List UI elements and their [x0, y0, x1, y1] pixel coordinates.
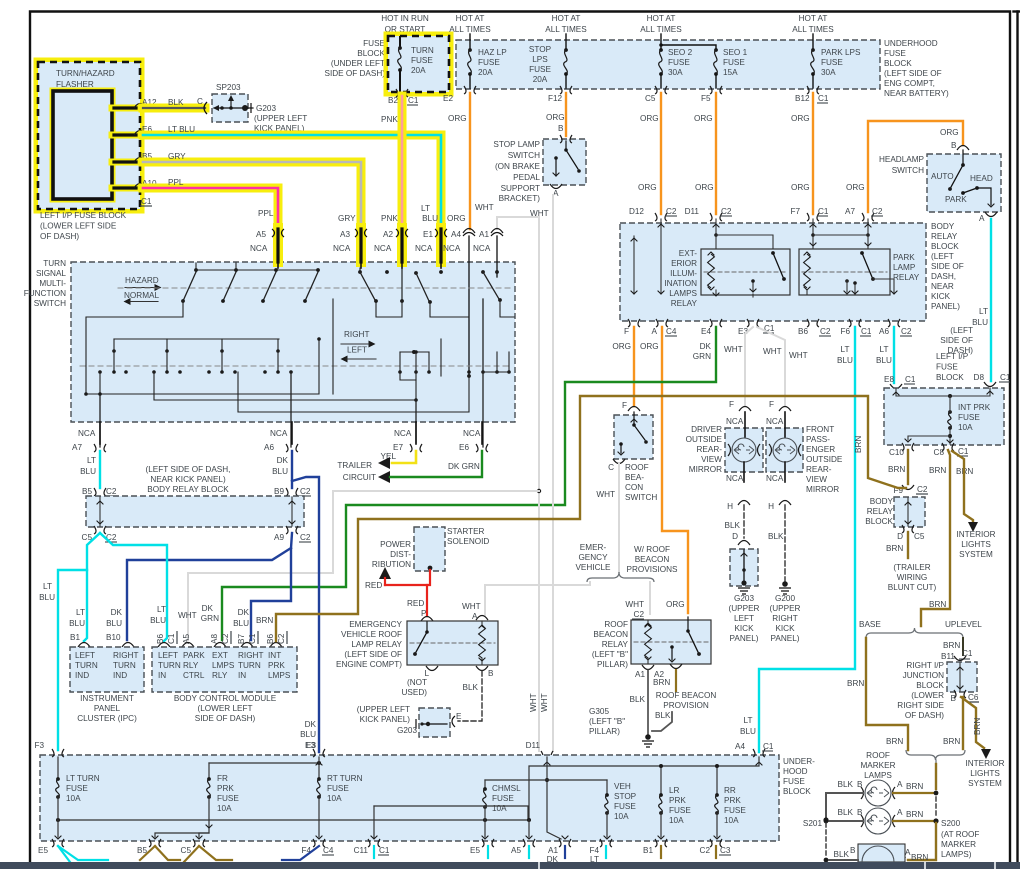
rt turn output: [316, 797, 323, 839]
svg-text:F: F: [769, 400, 774, 409]
svg-text:BEA-: BEA-: [625, 473, 644, 482]
terminal A1: [491, 229, 503, 237]
svg-text:PROVISION: PROVISION: [663, 701, 709, 710]
terminal C11 C1 out: [354, 839, 390, 855]
emerg relay coil: [479, 621, 486, 664]
svg-text:(UPPER: (UPPER: [729, 604, 760, 613]
wire LT BLU E5 out2: [487, 846, 489, 858]
ipc terminal labels: [70, 633, 121, 642]
underhood fuse block box: [456, 40, 880, 89]
svg-text:FUSE: FUSE: [217, 794, 239, 803]
terminal A3 highlighted: [355, 228, 367, 262]
svg-text:WIRING: WIRING: [897, 573, 927, 582]
switch contact mid: [414, 271, 469, 317]
svg-text:LT: LT: [841, 345, 850, 354]
svg-text:E5: E5: [470, 846, 480, 855]
svg-text:SWITCH: SWITCH: [508, 151, 540, 160]
svg-text:E2: E2: [443, 94, 453, 103]
svg-text:HOT AT: HOT AT: [799, 14, 828, 23]
adjacent page edge: [1014, 12, 1020, 869]
svg-text:B: B: [857, 780, 863, 789]
svg-text:INT: INT: [268, 651, 281, 660]
svg-text:BRN: BRN: [929, 466, 946, 475]
terminal E G203: [452, 716, 455, 727]
headlamp switch contacts: [948, 150, 994, 207]
switch A2 drop: [374, 268, 404, 317]
svg-text:DASH,: DASH,: [931, 272, 956, 281]
svg-text:A5: A5: [256, 230, 266, 239]
svg-text:C2: C2: [666, 207, 677, 216]
svg-text:KICK: KICK: [734, 624, 754, 633]
relay2 bottom exits: [807, 281, 897, 294]
svg-text:SP203: SP203: [216, 83, 241, 92]
svg-text:PEDAL: PEDAL: [513, 173, 540, 182]
svg-text:NCA: NCA: [473, 244, 491, 253]
svg-text:ALL TIMES: ALL TIMES: [640, 25, 682, 34]
switch net a: [84, 301, 183, 396]
svg-text:PARK LPS: PARK LPS: [821, 48, 861, 57]
wire WHT roof beacon C to brace: [596, 464, 619, 572]
svg-text:LAMPS: LAMPS: [669, 289, 697, 298]
svg-text:SWITCH: SWITCH: [625, 493, 657, 502]
svg-text:NCA: NCA: [443, 244, 461, 253]
svg-text:ERIOR: ERIOR: [671, 259, 697, 268]
splice S201 dot: [803, 817, 829, 828]
svg-text:(LEFT "B": (LEFT "B": [592, 650, 628, 659]
svg-text:A: A: [905, 848, 911, 857]
bus y806: [371, 806, 528, 839]
svg-text:FLASHER: FLASHER: [56, 80, 94, 89]
node dashed link: [935, 797, 937, 816]
switch mid verticals: [114, 339, 278, 372]
svg-text:RT TURN: RT TURN: [327, 774, 363, 783]
wire BLK S201 down: [824, 823, 829, 862]
svg-text:VEHICLE ROOF: VEHICLE ROOF: [341, 630, 402, 639]
svg-text:RELAY: RELAY: [671, 299, 698, 308]
a5 output: [526, 820, 533, 839]
terminal C roof beacon switch: [608, 459, 625, 472]
rr prk fuse 10A: [715, 766, 747, 825]
roof beacon relay coil: [645, 620, 652, 664]
svg-text:F: F: [622, 401, 627, 410]
svg-text:D12: D12: [629, 207, 644, 216]
roof beacon relay centerline: [634, 641, 708, 643]
terminal B11: [941, 652, 966, 661]
terminal A C4: [652, 319, 677, 336]
svg-text:SIDE OF DASH): SIDE OF DASH): [195, 714, 256, 723]
svg-text:(AT ROOF: (AT ROOF: [941, 830, 979, 839]
switch stub A1: [496, 236, 498, 277]
svg-text:NCA: NCA: [78, 429, 96, 438]
terminal P emerg relay: [421, 617, 433, 622]
interior lights system caption 1: [956, 530, 995, 559]
svg-text:C2: C2: [917, 485, 928, 494]
svg-text:SOLENOID: SOLENOID: [447, 537, 489, 546]
flasher label: [56, 69, 115, 89]
svg-text:REAR-: REAR-: [697, 445, 723, 454]
svg-text:C: C: [197, 97, 203, 106]
wire DK BLU A9 to IPC B10: [106, 548, 291, 640]
svg-text:FUSE: FUSE: [884, 49, 906, 58]
svg-text:BRN: BRN: [911, 853, 928, 862]
switch stub highlighted: [440, 262, 442, 268]
svg-text:LEFT: LEFT: [734, 614, 754, 623]
svg-text:POWER: POWER: [380, 540, 411, 549]
svg-text:FUSE: FUSE: [783, 777, 805, 786]
svg-text:NCA: NCA: [766, 417, 784, 426]
svg-text:BLU: BLU: [422, 214, 438, 223]
svg-text:A: A: [897, 808, 903, 817]
svg-text:WHT: WHT: [724, 345, 743, 354]
caption left side of dash: [940, 326, 973, 355]
svg-text:DRIVER: DRIVER: [691, 425, 722, 434]
svg-text:TURN: TURN: [113, 661, 136, 670]
svg-text:BLU: BLU: [272, 467, 288, 476]
svg-text:MIRROR: MIRROR: [689, 465, 722, 474]
ipc terminals: [78, 643, 134, 648]
svg-text:LR: LR: [669, 786, 680, 795]
switch stub highlighted: [277, 262, 279, 268]
seo2 fuse 30A: [659, 48, 693, 88]
wire WHT brace right to roof beacon relay: [625, 582, 650, 619]
svg-text:B: B: [857, 808, 863, 817]
interior lights arrow 2: [981, 749, 991, 759]
svg-text:LMPS: LMPS: [268, 671, 291, 680]
svg-text:LT TURN: LT TURN: [66, 774, 100, 783]
svg-text:ORG: ORG: [546, 113, 565, 122]
wire BRN C5 out: [184, 846, 232, 862]
svg-text:ROOF: ROOF: [604, 620, 628, 629]
marker lamp 2 wires: [824, 818, 939, 823]
ground G203 symbol: [738, 588, 750, 594]
roof beacon relay box: [631, 620, 711, 664]
svg-text:LT: LT: [421, 204, 430, 213]
switch contact A1: [481, 270, 514, 317]
bus a4 park lamps: [529, 757, 759, 820]
headlamp switch caption: [879, 155, 925, 175]
svg-text:A1: A1: [635, 670, 645, 679]
passenger mirror box: [766, 428, 803, 472]
svg-text:A: A: [897, 780, 903, 789]
svg-text:IN: IN: [238, 671, 246, 680]
svg-text:20A: 20A: [411, 66, 426, 75]
svg-text:10A: 10A: [217, 804, 232, 813]
svg-text:ORG: ORG: [640, 342, 659, 351]
svg-text:(LEFT: (LEFT: [950, 326, 973, 335]
svg-text:A: A: [652, 327, 658, 336]
svg-text:NEAR: NEAR: [931, 282, 954, 291]
terminal F5: [701, 86, 722, 103]
switch hazard blade: [303, 272, 318, 303]
svg-text:RIGHT: RIGHT: [772, 614, 797, 623]
svg-text:20A: 20A: [533, 75, 548, 84]
svg-text:(TRAILER: (TRAILER: [893, 563, 930, 572]
svg-text:RLY: RLY: [212, 671, 228, 680]
svg-text:PARK: PARK: [893, 253, 915, 262]
svg-text:LAMP: LAMP: [893, 263, 916, 272]
bcm terminals: [158, 643, 282, 648]
svg-text:C2: C2: [700, 846, 711, 855]
svg-text:E7: E7: [393, 443, 403, 452]
svg-text:ORG: ORG: [846, 183, 865, 192]
bus d11 branch: [485, 757, 607, 839]
svg-text:OF DASH): OF DASH): [40, 232, 79, 241]
svg-text:ENG COMPT,: ENG COMPT,: [884, 79, 935, 88]
terminal A5 highlighted: [272, 228, 284, 262]
wire BLK A12 to SP203: [143, 97, 205, 108]
svg-text:D: D: [897, 532, 903, 541]
hot at all times label #3: [640, 14, 682, 34]
body relay block caption: [931, 222, 964, 311]
svg-text:C1: C1: [763, 742, 774, 751]
wire YEL E7 trailer: [381, 451, 416, 463]
svg-text:(UPPER: (UPPER: [770, 604, 801, 613]
relay1 internal feed D11: [713, 219, 773, 248]
svg-text:OF DASH): OF DASH): [905, 711, 944, 720]
svg-text:A7: A7: [845, 207, 855, 216]
roof beacon relay switch: [669, 617, 701, 662]
svg-text:BRACKET): BRACKET): [499, 194, 541, 203]
bcm terminal labels rotated: [156, 631, 287, 644]
terminal F4 C4 out: [301, 839, 334, 855]
wire BRN B to interior lights 2: [961, 697, 984, 748]
wire LT BLU branch to F3: [34, 570, 87, 750]
svg-text:LEFT I/P: LEFT I/P: [936, 352, 969, 361]
terminal A5 out: [511, 839, 535, 855]
body relay block small caption: [865, 497, 893, 526]
switch hazard labels: [124, 276, 162, 305]
svg-text:NCA: NCA: [250, 244, 268, 253]
svg-text:WHT: WHT: [462, 602, 481, 611]
relay1 centerline: [704, 271, 787, 273]
terminal C2 C3 out: [700, 839, 731, 855]
roof marker brace: [906, 750, 965, 764]
svg-text:ORG: ORG: [791, 183, 810, 192]
left body relay caption: [146, 465, 231, 494]
wire DK BLU F4 out: [282, 846, 319, 860]
svg-text:FRONT: FRONT: [806, 425, 834, 434]
svg-text:FUNCTION: FUNCTION: [24, 289, 66, 298]
base uplevel brace: [859, 620, 982, 638]
flasher pin E6: [112, 131, 146, 136]
svg-text:ORG: ORG: [791, 114, 810, 123]
wire PNK fuse to A2: [381, 96, 402, 240]
relay2 coil: [804, 252, 811, 290]
terminal B12 C1: [795, 86, 829, 103]
svg-text:E4: E4: [701, 327, 711, 336]
svg-text:HAZARD: HAZARD: [125, 276, 159, 285]
svg-text:PARK: PARK: [183, 651, 205, 660]
svg-text:INT PRK: INT PRK: [958, 403, 991, 412]
svg-text:GENCY: GENCY: [578, 553, 608, 562]
svg-text:FUSE: FUSE: [66, 784, 88, 793]
wire BRN C8 to base uplevel brace: [921, 450, 950, 626]
svg-text:10A: 10A: [327, 794, 342, 803]
svg-text:CLUSTER (IPC): CLUSTER (IPC): [77, 714, 137, 723]
svg-text:15A: 15A: [723, 68, 738, 77]
terminal D11 entry2: [544, 762, 551, 765]
svg-text:SEO 1: SEO 1: [723, 48, 748, 57]
roof beacon brace: [587, 572, 654, 582]
svg-text:RELAY: RELAY: [931, 232, 958, 241]
svg-text:BLU: BLU: [740, 727, 756, 736]
veh stop output: [604, 813, 611, 839]
svg-text:BLOCK: BLOCK: [931, 242, 959, 251]
wire LT BLU A7 to B5: [80, 451, 100, 488]
relay2 centerline: [802, 271, 887, 273]
svg-text:A9: A9: [274, 533, 284, 542]
hot at all times label #4: [792, 14, 834, 34]
svg-text:ORG: ORG: [695, 183, 714, 192]
svg-text:C4: C4: [323, 846, 334, 855]
svg-text:C4: C4: [666, 327, 677, 336]
relay1 coil: [708, 252, 715, 290]
wire DK GRN E6 trailer: [390, 451, 482, 477]
svg-text:BRN: BRN: [886, 544, 903, 553]
svg-text:BASE: BASE: [859, 620, 881, 629]
int prk fuse outputs: [905, 428, 954, 444]
svg-text:B1: B1: [70, 633, 80, 642]
headlamp A terminal: [979, 212, 997, 223]
svg-text:B10: B10: [106, 633, 121, 642]
terminal C8 C1: [934, 443, 969, 457]
wire BRN D trailer stub: [886, 532, 908, 558]
lt turn fuse 10A: [56, 757, 100, 803]
terminal A2 highlighted: [396, 228, 408, 262]
svg-text:(LEFT "B": (LEFT "B": [589, 717, 625, 726]
right ip junction caption: [897, 661, 944, 720]
emerg relay caption: [336, 620, 402, 669]
body relay block small box: [894, 497, 925, 527]
svg-text:DK: DK: [111, 608, 123, 617]
svg-text:C1: C1: [861, 327, 872, 336]
svg-text:FUSE: FUSE: [529, 65, 551, 74]
svg-text:BLOCK: BLOCK: [916, 681, 944, 690]
svg-text:LAMP RELAY: LAMP RELAY: [351, 640, 402, 649]
svg-text:ROOF: ROOF: [866, 751, 890, 760]
wire ORG F12 to stop lamp switch: [546, 93, 566, 136]
svg-text:PPL: PPL: [168, 178, 184, 187]
svg-text:A4: A4: [735, 742, 745, 751]
switch hazard blade: [221, 272, 236, 303]
bcm box: [152, 647, 297, 692]
svg-text:ORG: ORG: [612, 342, 631, 351]
ipc caption: [77, 694, 137, 723]
ground G203 internal: [741, 550, 748, 586]
svg-text:RED: RED: [365, 581, 382, 590]
svg-text:(UNDER LEFT: (UNDER LEFT: [331, 59, 385, 68]
svg-text:LT: LT: [43, 582, 52, 591]
roof beacon switch box: [614, 415, 653, 459]
terminal F: [624, 319, 640, 336]
terminal B6 C2: [798, 319, 831, 336]
svg-text:RELAY: RELAY: [893, 273, 920, 282]
ground G203 caption: [729, 594, 760, 643]
switch low bus 3: [238, 372, 469, 412]
svg-text:A: A: [472, 612, 478, 621]
marker lamp 3 box: [858, 844, 905, 862]
svg-text:BODY: BODY: [931, 222, 955, 231]
terminal C10: [889, 443, 914, 457]
underhood bottom caption: [783, 757, 815, 796]
svg-text:A7: A7: [72, 443, 82, 452]
splice SP203 symbol: [213, 95, 248, 111]
svg-text:HEADLAMP: HEADLAMP: [879, 155, 925, 164]
svg-text:20A: 20A: [478, 68, 493, 77]
terminal E3 C1: [738, 319, 775, 336]
lr prk output: [658, 813, 665, 839]
svg-text:10A: 10A: [669, 816, 684, 825]
svg-text:C1: C1: [379, 846, 390, 855]
hot at all times label #2: [545, 14, 587, 34]
svg-text:BLU: BLU: [69, 619, 85, 628]
svg-text:RELAY: RELAY: [867, 507, 894, 516]
svg-text:C2: C2: [820, 327, 831, 336]
svg-text:B9: B9: [274, 487, 284, 496]
svg-text:(UPPER LEFT: (UPPER LEFT: [357, 705, 410, 714]
svg-text:SIDE OF: SIDE OF: [940, 336, 973, 345]
stop lps fuse feed: [565, 34, 567, 48]
terminal A1 roof beacon relay: [635, 665, 654, 679]
svg-text:PARK: PARK: [945, 195, 967, 204]
svg-text:ORG: ORG: [447, 214, 466, 223]
svg-text:DK: DK: [202, 604, 214, 613]
svg-text:G203: G203: [397, 726, 417, 735]
svg-text:A: A: [979, 214, 985, 223]
svg-text:F7: F7: [790, 207, 800, 216]
svg-text:C1: C1: [141, 197, 152, 206]
switch NCA labels: [250, 244, 491, 253]
svg-text:LMPS: LMPS: [212, 661, 235, 670]
svg-text:AUTO: AUTO: [931, 172, 954, 181]
passenger mirror NCA out: [766, 474, 791, 511]
wire ORG C5 to D12: [638, 93, 661, 214]
wire WHT C1 to passenger mirror: [757, 327, 808, 406]
ground G203 label: [248, 103, 307, 133]
terminal F3 entry: [52, 749, 64, 757]
wire BRN B to marker brace: [943, 697, 963, 749]
svg-text:G305: G305: [589, 707, 609, 716]
roof marker lamps caption: [860, 751, 895, 780]
park lamp relay box: [799, 249, 890, 295]
roof beacon switch contact: [618, 412, 648, 455]
wire LT BLU C11 out: [373, 846, 375, 858]
svg-text:DK: DK: [700, 342, 712, 351]
svg-text:KICK PANEL): KICK PANEL): [360, 715, 411, 724]
hot in run or start label: [381, 14, 429, 34]
svg-text:C5: C5: [181, 846, 192, 855]
svg-text:BEACON: BEACON: [635, 555, 670, 564]
svg-text:C2: C2: [901, 327, 912, 336]
left body relay block box: [86, 496, 304, 527]
svg-text:FUSE: FUSE: [669, 806, 691, 815]
bottom dark bar: [0, 862, 1020, 869]
svg-text:BRN: BRN: [888, 465, 905, 474]
park lps fuse 30A: [811, 48, 861, 88]
interior lights arrow 1: [968, 522, 978, 532]
svg-text:DK: DK: [238, 608, 250, 617]
terminal B emerg relay: [463, 666, 494, 692]
svg-text:BRN: BRN: [653, 678, 670, 687]
svg-text:UPLEVEL: UPLEVEL: [945, 620, 982, 629]
wire BRN C10 to F9: [907, 450, 909, 484]
G203 left box: [419, 708, 450, 737]
svg-text:WHT: WHT: [529, 693, 538, 712]
terminal F9 C2: [893, 485, 928, 495]
label LT BLU E1: [421, 204, 438, 223]
terminal F4 out2: [589, 839, 612, 864]
svg-text:LT: LT: [880, 345, 889, 354]
